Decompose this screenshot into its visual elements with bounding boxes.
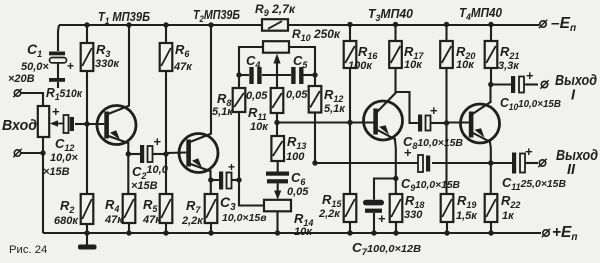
wire T1 emitter down xyxy=(127,142,129,154)
wire T3 emitter down xyxy=(395,138,396,179)
wire input top to R1 xyxy=(21,93,43,106)
svg-text:5,1к: 5,1к xyxy=(324,103,346,115)
potentiometer R1 xyxy=(38,106,49,137)
node R4 bottom xyxy=(126,230,131,235)
svg-text:+: + xyxy=(526,68,534,83)
resistor R6 xyxy=(160,43,173,71)
R1 wiper arrow from C12 xyxy=(50,120,63,126)
wire R10 left bend down to C4 node xyxy=(239,47,263,75)
svg-text:+: + xyxy=(52,104,60,119)
svg-text:Т3МП40: Т3МП40 xyxy=(368,7,413,23)
svg-text:10к: 10к xyxy=(250,121,269,133)
node C5 right xyxy=(312,72,317,77)
wire R21 to collector node xyxy=(490,68,492,85)
transistor T4 xyxy=(461,102,500,143)
terminal output I xyxy=(540,80,548,88)
svg-text:R10 250к: R10 250к xyxy=(292,27,341,43)
svg-text:10,0×: 10,0× xyxy=(50,152,78,164)
capacitor C7 xyxy=(363,200,384,213)
resistor R12 xyxy=(314,75,316,86)
wire T4 emitter down xyxy=(490,141,491,163)
wire R14 to rail xyxy=(276,211,278,233)
transistor T2 xyxy=(166,134,218,173)
node T4 emitter xyxy=(488,160,493,165)
transistor T3 xyxy=(364,93,403,141)
wire C7 to rail xyxy=(373,213,375,233)
svg-text:10к: 10к xyxy=(456,59,475,71)
wire input bottom xyxy=(21,152,43,154)
svg-text:3,3к: 3,3к xyxy=(498,60,520,72)
node T2 base xyxy=(163,151,168,156)
resistor R16 xyxy=(349,25,351,42)
svg-text:1,5к: 1,5к xyxy=(456,210,478,222)
node C7 bottom xyxy=(371,230,376,235)
terminal output II xyxy=(538,159,546,167)
wire rail to R6 xyxy=(165,25,167,43)
resistor R15 xyxy=(344,194,357,222)
resistor R4 xyxy=(123,194,136,223)
node C4 left xyxy=(236,72,241,77)
svg-text:×20В: ×20В xyxy=(8,73,35,85)
wire R19 to rail xyxy=(446,222,448,233)
node R19 bottom xyxy=(444,230,449,235)
node R2 bottom xyxy=(84,230,89,235)
wire rail to R3 xyxy=(86,25,88,43)
wire C9 to C11 xyxy=(432,162,512,164)
node R14 bottom xyxy=(275,230,280,235)
node rail R3 xyxy=(84,22,89,27)
node R12 bottom xyxy=(312,160,317,165)
svg-text:330к: 330к xyxy=(95,58,120,70)
svg-text:10,0×15в: 10,0×15в xyxy=(222,212,267,224)
node R18 bottom xyxy=(393,230,398,235)
node T4 collector xyxy=(488,82,493,87)
wire R10 right bend down to C5 node xyxy=(289,47,315,75)
capacitor C12 xyxy=(64,115,75,133)
ground xyxy=(78,233,97,250)
node T4 base xyxy=(444,120,449,125)
node R7 bottom xyxy=(208,230,213,235)
svg-text:0,05: 0,05 xyxy=(246,90,268,102)
svg-text:100: 100 xyxy=(286,151,305,163)
svg-text:Выход: Выход xyxy=(556,148,598,164)
svg-text:+: + xyxy=(378,211,386,226)
resistor R2 xyxy=(81,194,94,224)
svg-text:330: 330 xyxy=(404,209,423,221)
svg-text:47к: 47к xyxy=(173,61,193,73)
wire T4 collector xyxy=(489,85,491,104)
capacitor C10 xyxy=(491,83,511,85)
resistor R17 xyxy=(394,25,396,42)
node R11 bottom base wire xyxy=(274,120,279,125)
wire T2 emitter down xyxy=(209,170,211,180)
input terminal top xyxy=(13,89,21,97)
resistor R19 xyxy=(441,194,454,222)
wire R22 to rail xyxy=(490,222,492,233)
svg-text:680к: 680к xyxy=(54,215,79,227)
node T1 emitter xyxy=(126,151,131,156)
wire R4 to rail xyxy=(128,223,130,233)
svg-text:100к: 100к xyxy=(348,60,373,72)
svg-text:+: + xyxy=(67,59,74,73)
wire R17 to T3 collector and C8 xyxy=(396,68,419,123)
wire R6 to R5 (T2 base column) xyxy=(165,71,167,194)
terminal +Ep xyxy=(542,229,550,237)
svg-text:47к: 47к xyxy=(104,214,124,226)
resistor R7 xyxy=(205,194,218,223)
wire C1 middle xyxy=(57,63,59,78)
svg-text:50,0×: 50,0× xyxy=(21,61,49,73)
wire R3 to R2 (T1 base column) xyxy=(86,71,88,194)
resistor R14 (trimmer) xyxy=(264,200,291,212)
svg-text:R9 2,7к: R9 2,7к xyxy=(255,2,296,18)
svg-text:2,2к: 2,2к xyxy=(318,208,341,220)
wire - bottom supply rail (+Ep) xyxy=(43,232,541,234)
node R15 bottom xyxy=(347,230,352,235)
capacitor C9 xyxy=(418,155,430,172)
capacitor C2 xyxy=(128,153,140,155)
svg-text:+: + xyxy=(154,134,162,149)
resistor R3 xyxy=(81,43,94,71)
svg-text:R1510к: R1510к xyxy=(46,85,83,102)
wire R11 to R13 xyxy=(276,113,278,136)
input terminal bottom xyxy=(13,149,21,157)
node C3 right xyxy=(236,177,241,182)
node T2 emitter xyxy=(208,177,213,182)
resistor R13 xyxy=(271,136,284,161)
svg-text:Т4МП40: Т4МП40 xyxy=(459,6,502,22)
R10 wiper arrow xyxy=(273,54,280,89)
node T3 emitter xyxy=(393,176,398,181)
node rail R20 xyxy=(444,22,449,27)
capacitor C6 xyxy=(277,161,279,172)
resistor R22 xyxy=(490,163,492,194)
resistor R9 xyxy=(262,19,288,31)
svg-text:+: + xyxy=(430,103,438,118)
wire emitter jog to C7 xyxy=(374,179,396,200)
wire C3 node to R14 xyxy=(239,180,264,206)
svg-text:II: II xyxy=(567,162,576,178)
svg-text:Рис. 24: Рис. 24 xyxy=(9,244,47,256)
wire R7 to rail xyxy=(210,223,212,233)
svg-text:10к: 10к xyxy=(404,59,423,71)
svg-text:5,1к: 5,1к xyxy=(212,106,234,118)
capacitor C3 xyxy=(211,179,219,181)
wire R16 down through nodes xyxy=(349,68,351,194)
resistor R5 xyxy=(160,194,173,223)
capacitor C1 xyxy=(58,25,59,51)
wire C1 bottom stub xyxy=(57,82,59,88)
node R1 bottom input junction xyxy=(40,150,45,155)
node rail R16 xyxy=(347,22,352,27)
node T1 collector rail xyxy=(126,22,131,27)
wire T1 collector to rail xyxy=(128,25,130,106)
wire - top supply rail (-Ep) xyxy=(59,24,539,26)
resistor R10 (trimmer) xyxy=(263,41,289,53)
svg-text:C810,0×15В: C810,0×15В xyxy=(403,134,463,151)
C6 arrow to R14 xyxy=(274,183,281,199)
wire T1 emitter to R4 xyxy=(127,154,129,194)
wire T2 collector to rail xyxy=(210,25,212,134)
node T1 base xyxy=(84,121,89,126)
node R16 base wire xyxy=(347,120,352,125)
svg-text:C910,0×15В: C910,0×15В xyxy=(401,176,460,193)
svg-text:×15В: ×15В xyxy=(131,180,158,192)
wire signal bus to C9 xyxy=(315,162,418,164)
svg-text:Вход: Вход xyxy=(2,118,37,134)
node T2 collector rail xyxy=(208,22,213,27)
svg-text:10к: 10к xyxy=(294,226,313,238)
capacitor C8 xyxy=(418,115,431,132)
resistor R20 xyxy=(445,25,447,42)
svg-text:2,2к: 2,2к xyxy=(181,215,204,227)
wire R18 to rail xyxy=(395,222,397,233)
capacitor C5 xyxy=(291,67,303,84)
wire R15 to rail xyxy=(349,222,351,233)
svg-text:×15В: ×15В xyxy=(43,166,70,178)
wire R8 down to C3 node xyxy=(238,112,240,180)
node R5 bottom xyxy=(163,230,168,235)
wire base to T4 xyxy=(447,121,470,123)
svg-text:1к: 1к xyxy=(502,210,515,222)
svg-text:Выход: Выход xyxy=(555,73,597,89)
capacitor C11 xyxy=(512,153,525,174)
resistor R8 xyxy=(238,75,240,88)
node rail R6 xyxy=(163,22,168,27)
wire R12 down to signal wire xyxy=(314,113,316,164)
svg-text:+: + xyxy=(228,160,235,174)
svg-text:0,05: 0,05 xyxy=(286,89,308,101)
wire R20 down through base node xyxy=(445,68,447,194)
svg-text:+: + xyxy=(525,144,533,159)
svg-text:0,05: 0,05 xyxy=(287,186,309,198)
wire C12 to base node xyxy=(75,123,87,125)
wire R2 to rail xyxy=(86,224,88,233)
wire R5 to rail xyxy=(165,223,167,233)
terminal -Ep xyxy=(539,20,547,28)
wire T2 emitter to R7 xyxy=(210,180,212,194)
wire R1 bottom to rail xyxy=(42,137,44,233)
resistor R11 xyxy=(276,87,278,89)
capacitor C4 xyxy=(239,74,249,76)
resistor R18 xyxy=(395,179,397,195)
transistor T1 xyxy=(87,106,136,145)
node rail R17 xyxy=(393,22,398,27)
resistor R21 xyxy=(490,25,492,42)
wire base to T3 xyxy=(277,121,374,123)
svg-text:47к: 47к xyxy=(142,214,162,226)
node rail R21 xyxy=(488,22,493,27)
node R22 bottom xyxy=(488,230,493,235)
svg-text:+: + xyxy=(404,145,412,160)
